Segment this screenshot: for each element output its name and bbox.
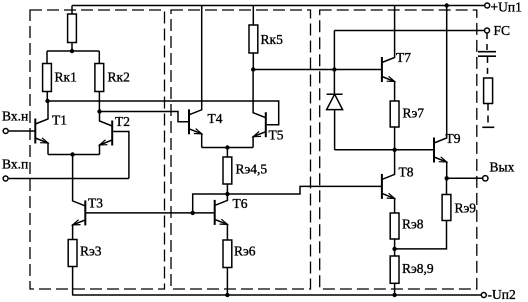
resistor Re3 bbox=[68, 240, 77, 296]
transistor T3 (mirrored) bbox=[73, 155, 86, 240]
wire Vkh.n to T1 base bbox=[9, 130, 36, 132]
svg-text:Rэ6: Rэ6 bbox=[234, 244, 256, 259]
wire node Z to Re9 bottom bbox=[395, 221, 447, 249]
resistor Rk5 bbox=[249, 6, 258, 70]
node Z bbox=[392, 247, 396, 251]
svg-text:Rк5: Rк5 bbox=[261, 32, 284, 47]
node B (Rk2 bottom / T2 collector) bbox=[97, 109, 101, 113]
terminal FC bbox=[485, 28, 490, 33]
wire FC drop to T7 base node bbox=[333, 31, 335, 70]
stage 2 dashed box bbox=[171, 10, 311, 289]
resistor R0 (unlabeled, top) bbox=[68, 6, 77, 52]
svg-text:-Uп2: -Uп2 bbox=[488, 287, 516, 302]
node X bbox=[225, 192, 229, 196]
node on base line bbox=[191, 211, 195, 215]
svg-text:Rк2: Rк2 bbox=[108, 70, 130, 85]
svg-text:Rэ9: Rэ9 bbox=[455, 201, 477, 216]
svg-text:T6: T6 bbox=[233, 196, 248, 211]
terminal +Up1 bbox=[485, 3, 490, 8]
wire T1-T2 common emitter line bbox=[48, 154, 100, 156]
capacitor C (correction) bbox=[478, 52, 496, 57]
wire Rk1-Rk2 top node line bbox=[47, 50, 99, 52]
resistor Re6 bbox=[223, 240, 232, 295]
resistor Rk1 bbox=[43, 51, 52, 101]
ground bbox=[482, 126, 494, 128]
node rail Re8,9 bbox=[392, 293, 396, 297]
terminal -Up2 bbox=[481, 293, 486, 298]
svg-text:T3: T3 bbox=[88, 196, 103, 211]
wire output line bbox=[447, 177, 483, 179]
transistor T6 bbox=[215, 194, 228, 240]
stage 3 dashed box bbox=[320, 10, 477, 289]
input terminal Vkh.p bbox=[3, 176, 8, 181]
transistor T9 bbox=[434, 6, 447, 179]
transistor T7 bbox=[382, 6, 395, 102]
svg-text:Rк1: Rк1 bbox=[55, 70, 77, 85]
diode VD1 bbox=[327, 70, 343, 150]
wire FC line bbox=[334, 30, 484, 32]
terminal Vykh bbox=[483, 176, 488, 181]
resistor R (correction) bbox=[484, 78, 493, 104]
wire Vkh.p to T2 base corner bbox=[9, 178, 129, 180]
transistor T8 bbox=[382, 150, 395, 213]
svg-text:Rэ8: Rэ8 bbox=[402, 217, 424, 232]
wire line a: Rk1 bottom to T5 base wrap bbox=[48, 101, 279, 125]
node Rk5 bottom bbox=[251, 67, 255, 71]
svg-text:T1: T1 bbox=[52, 113, 67, 128]
transistor T1 bbox=[35, 101, 48, 155]
node under R0 bbox=[70, 49, 74, 53]
wire jog up from base line to node X line bbox=[193, 194, 228, 213]
resistor Re9 bbox=[442, 178, 451, 220]
node diode top / FC tap bbox=[332, 67, 336, 71]
svg-text:T7: T7 bbox=[396, 50, 411, 65]
input terminal Vkh.n bbox=[3, 129, 8, 134]
svg-text:Rэ4,5: Rэ4,5 bbox=[236, 162, 268, 177]
resistor Re8 bbox=[390, 213, 399, 256]
wire T2 base to Vkh.p line bbox=[113, 132, 129, 179]
svg-text:T8: T8 bbox=[399, 165, 414, 180]
svg-text:+Uп1: +Uп1 bbox=[491, 0, 522, 15]
node Y bbox=[392, 148, 396, 152]
svg-text:FC: FC bbox=[494, 23, 511, 38]
wire dashed capacitor to resistor bbox=[487, 57, 489, 78]
svg-text:Вх.п: Вх.п bbox=[2, 157, 28, 172]
wire dashed resistor to ground bbox=[487, 104, 489, 128]
svg-text:Вых: Вых bbox=[490, 160, 515, 175]
svg-text:T5: T5 bbox=[269, 128, 284, 143]
transistor T4 bbox=[189, 6, 202, 148]
svg-text:Rэ8,9: Rэ8,9 bbox=[402, 261, 434, 276]
node A (Rk1 bottom / T1 collector) bbox=[45, 99, 49, 103]
wire line b: Rk2 bottom to T4 base bbox=[100, 112, 190, 122]
wire +Up1 top rail bbox=[72, 5, 484, 7]
stage 1 dashed box bbox=[30, 10, 165, 289]
resistor Re7 bbox=[390, 101, 399, 150]
wire Rk5 node to T7 base bbox=[253, 69, 382, 71]
wire dashed FC to capacitor bbox=[486, 33, 488, 51]
transistor T2 (mirrored) bbox=[100, 112, 113, 155]
wire T4-T5 common emitter line bbox=[202, 147, 253, 149]
svg-text:Rэ7: Rэ7 bbox=[403, 106, 425, 121]
node rail T9 collector bbox=[445, 3, 449, 7]
wire -Up2 bottom rail bbox=[72, 294, 481, 296]
svg-text:T2: T2 bbox=[115, 114, 130, 129]
resistor Re8,9 bbox=[390, 256, 399, 295]
wire T3 base to T6 base bbox=[85, 212, 214, 214]
wire node Y line to T9 base bbox=[335, 149, 434, 151]
node rail Re6 bbox=[225, 293, 229, 297]
svg-text:Rэ3: Rэ3 bbox=[80, 244, 102, 259]
resistor Re4,5 bbox=[223, 148, 232, 195]
node emitter join 2 bbox=[225, 145, 229, 149]
svg-text:T4: T4 bbox=[208, 111, 223, 126]
svg-text:Вх.н: Вх.н bbox=[2, 109, 28, 124]
svg-text:T9: T9 bbox=[446, 131, 461, 146]
node emitter join 1 bbox=[70, 152, 74, 156]
wire node X to T8 base (stepped) bbox=[227, 186, 382, 194]
transistor T5 (mirrored) bbox=[253, 70, 266, 148]
node output bbox=[445, 176, 449, 180]
resistor Rk2 bbox=[95, 51, 104, 112]
